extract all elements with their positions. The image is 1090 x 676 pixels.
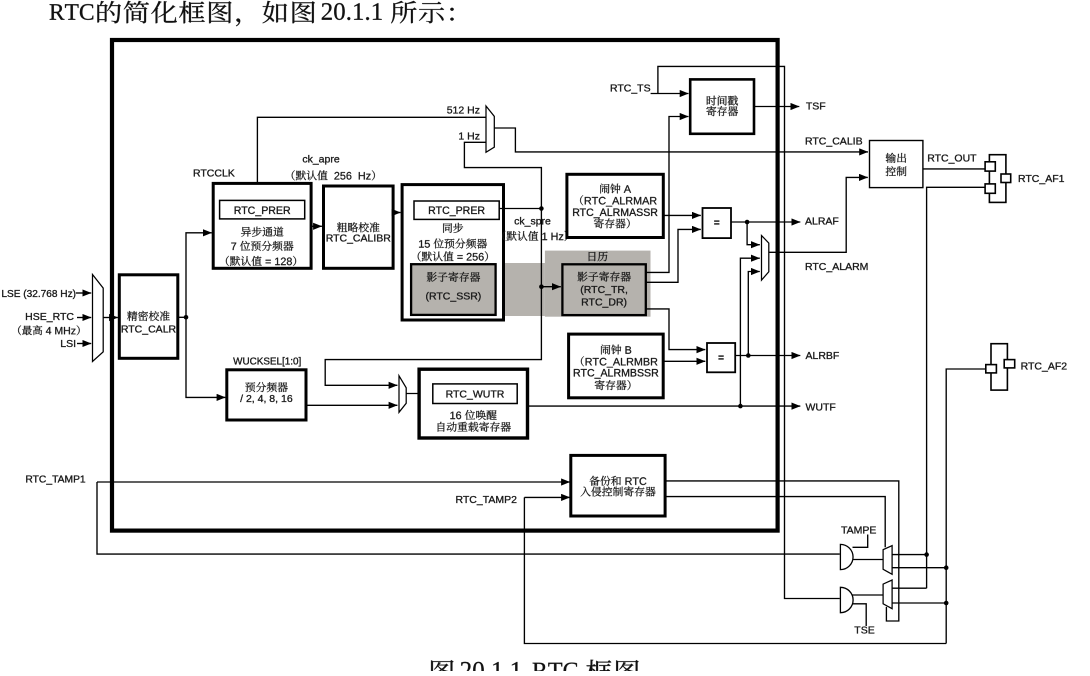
text 自动重载寄存器 xyxy=(438,422,511,432)
text 闹钟 B xyxy=(601,345,631,355)
wire calendar to timestamp xyxy=(646,117,689,273)
wire RTCCLK up to async prescaler xyxy=(186,233,212,317)
text （RTC_ALRMAR xyxy=(580,195,657,206)
svg-text:(RTC_TR,: (RTC_TR, xyxy=(580,284,628,296)
svg-text:RTC_ALRMASSR: RTC_ALRMASSR xyxy=(572,207,658,219)
wire RTC_TAMP1 to TAMPE gate xyxy=(97,482,840,554)
box shadow register RTC_TR/RTC_DR xyxy=(562,264,645,315)
svg-text:RTCCLK: RTCCLK xyxy=(193,167,235,179)
text 控制 xyxy=(886,166,907,176)
svg-text:/ 2, 4, 8, 16: / 2, 4, 8, 16 xyxy=(240,393,293,405)
wire wakeup mux to WUTR xyxy=(406,393,431,395)
box 备份和RTC入侵控制寄存器 xyxy=(571,455,665,516)
wire TAMPE gate out xyxy=(853,559,883,561)
pin RTC_AF2 pad left xyxy=(986,365,997,373)
label （默认值 256 Hz） xyxy=(292,170,375,180)
wire RTCCLK down to /2..16 prescaler xyxy=(186,317,225,397)
svg-text:LSI: LSI xyxy=(60,338,76,350)
wire alarm B to comparator xyxy=(663,360,705,362)
box shadow register RTC_SSR xyxy=(411,264,496,315)
wire mux2 out C xyxy=(892,587,927,589)
calendar gray box 日历 xyxy=(545,251,651,317)
svg-text:RTC_OUT: RTC_OUT xyxy=(927,153,977,165)
text 16 位唤醒 xyxy=(450,410,496,420)
box 时间戳寄存器 timestamp xyxy=(690,79,754,133)
wire ck_spre to wakeup mux xyxy=(325,287,541,386)
wire calendar to comparator B xyxy=(646,309,706,350)
pin RTC_AF2 body xyxy=(991,344,1007,390)
wire comparator B to alarm mux xyxy=(748,272,760,356)
text 预分频器 xyxy=(245,382,287,392)
text 影子寄存器 (SSR) xyxy=(427,272,480,282)
svg-text:WUTF: WUTF xyxy=(806,402,836,414)
RTC block outer boundary xyxy=(112,40,778,531)
text 影子寄存器 (TR/DR) xyxy=(578,272,631,282)
wire calendar to comparator A xyxy=(646,229,701,282)
svg-text:HSE_RTC: HSE_RTC xyxy=(25,311,74,323)
wire TAMPE select xyxy=(853,535,868,548)
wire TSE gate out xyxy=(852,594,883,596)
wire backup out1 to mux2 select xyxy=(665,481,899,621)
node RTCCLK junction xyxy=(184,315,189,320)
wire ck_spre down xyxy=(540,209,542,287)
wire comparator A to alarm mux xyxy=(747,222,760,245)
text 同步 xyxy=(443,223,463,233)
svg-text:RTC_PRER: RTC_PRER xyxy=(234,205,291,217)
caption 图 20.1.1 RTC 框图 xyxy=(431,660,454,676)
svg-text:RTC_TS: RTC_TS xyxy=(610,83,651,95)
box 闹钟 B registers xyxy=(569,334,664,398)
wire RTC_OUT to AF1 xyxy=(923,168,986,170)
pin RTC_AF1 pad upper-left xyxy=(985,162,995,171)
alarm output mux xyxy=(762,236,769,281)
inner box RTC_PRER (async) xyxy=(220,200,305,219)
node ck_spre to calendar xyxy=(539,284,544,289)
svg-text:LSE (32.768 Hz): LSE (32.768 Hz) xyxy=(1,289,76,300)
pin RTC_AF2 pad right xyxy=(1004,360,1015,368)
svg-text:ck_apre: ck_apre xyxy=(302,154,340,166)
node dot B xyxy=(944,565,949,570)
wire async to coarse calib xyxy=(311,225,322,227)
clock input mux xyxy=(93,275,104,362)
pin RTC_AF1 pad lower-left xyxy=(985,184,995,193)
svg-text:RTC_PRER: RTC_PRER xyxy=(428,205,485,217)
wire WUTF out xyxy=(528,405,801,407)
svg-text:512 Hz: 512 Hz xyxy=(447,104,480,116)
svg-text:WUCKSEL[1:0]: WUCKSEL[1:0] xyxy=(233,356,301,367)
svg-text:RTC_ALARM: RTC_ALARM xyxy=(805,261,868,273)
box async 7-bit prescaler xyxy=(213,183,311,268)
node dot A xyxy=(924,552,929,557)
wire coarse to sync prescaler xyxy=(393,212,400,214)
svg-text:1 Hz: 1 Hz xyxy=(458,130,480,142)
svg-text:ALRBF: ALRBF xyxy=(806,350,840,362)
wire WUTF to alarm mux xyxy=(740,258,759,406)
text 7 位预分频器 xyxy=(231,241,293,251)
wakeup mux xyxy=(399,376,406,413)
svg-text:RTC_CALIBR: RTC_CALIBR xyxy=(326,233,392,245)
svg-text:=: = xyxy=(718,353,724,364)
text 闹钟 A xyxy=(600,184,631,194)
gray band linking shadow registers xyxy=(407,263,545,316)
svg-text:(RTC_SSR): (RTC_SSR) xyxy=(425,291,481,303)
wire mux1 out A xyxy=(892,554,927,556)
wire HSE_RTC to mux xyxy=(77,317,91,319)
svg-text:RTC_CALIB: RTC_CALIB xyxy=(805,135,863,147)
wire TSE select xyxy=(852,604,867,626)
node WUTF junction xyxy=(738,404,743,409)
text 寄存器） (A) xyxy=(594,218,630,228)
svg-text:TAMPE: TAMPE xyxy=(841,524,876,536)
comparator = (A) xyxy=(703,208,732,238)
wire AF1 down to tamper muxes xyxy=(927,187,986,588)
box 输出控制 output control xyxy=(870,141,923,188)
text 寄存器） (B) xyxy=(595,380,631,390)
label （最高 4 MHz） xyxy=(18,325,80,335)
wire RTC_TAMP1 to backup box xyxy=(97,481,570,483)
wire ALRBF out xyxy=(735,355,800,357)
gate TSE xyxy=(840,587,853,612)
text （RTC_ALRMBR xyxy=(581,356,658,367)
svg-text:RTC_WUTR: RTC_WUTR xyxy=(446,389,505,401)
wire mux output into RTC_CALR xyxy=(103,317,118,319)
text 入侵控制寄存器 xyxy=(581,486,656,496)
text 备份和 RTC xyxy=(590,476,647,486)
text 寄存器 (ts) xyxy=(706,106,738,116)
wire RTC_TAMP2 bottom run xyxy=(524,497,946,643)
inner box RTC_WUTR xyxy=(433,384,517,404)
text （默认值 = 128） xyxy=(226,256,296,266)
comparator = (B) xyxy=(707,343,735,372)
wire LSI to mux xyxy=(77,343,91,345)
wire backup out2 to mux1 select xyxy=(665,497,885,548)
wire ck_spre into calendar xyxy=(541,286,560,288)
svg-text:TSF: TSF xyxy=(806,101,826,113)
inner box RTC_PRER (sync) xyxy=(414,201,499,219)
wire RTC_ALARM to output-control xyxy=(769,177,868,252)
text （默认值 = 256） xyxy=(418,251,488,261)
wire RTC_TAMP2 to backup box xyxy=(524,496,570,498)
node ck line junction xyxy=(539,206,544,211)
svg-text:RTC_ALRMBSSR: RTC_ALRMBSSR xyxy=(573,368,659,380)
wire RTC_TS loop to TSE gate xyxy=(658,66,840,598)
wire alarm A to comparator xyxy=(663,214,701,216)
svg-text:=: = xyxy=(714,218,720,229)
wire LSE to mux xyxy=(76,292,91,294)
node ALRBF junction xyxy=(746,353,751,358)
node dot D xyxy=(944,601,949,606)
wire 512Hz tap from async box xyxy=(257,117,486,183)
node ALRAF junction xyxy=(745,220,750,225)
text 粗略校准 xyxy=(337,222,380,232)
wire RTC_CALR output to junction xyxy=(178,316,186,318)
gate TAMPE xyxy=(840,544,853,569)
svg-text:RTC_AF1: RTC_AF1 xyxy=(1018,173,1065,185)
calendar label 日历 xyxy=(589,252,608,262)
wire prescaler to wakeup mux xyxy=(306,404,397,406)
tamper mux lower xyxy=(883,580,892,609)
wire RTC_TS into timestamp xyxy=(651,93,689,95)
pin RTC_AF1 pad right xyxy=(1001,174,1011,183)
text 精密校准 xyxy=(127,311,170,321)
tamper mux upper xyxy=(883,546,892,575)
label （默认值 1 Hz） xyxy=(502,231,567,241)
title text: RTC block-diagram heading xyxy=(50,4,94,20)
svg-text:RTC_AF2: RTC_AF2 xyxy=(1021,360,1068,372)
wire ALRAF out xyxy=(731,221,800,223)
box sync 15-bit prescaler xyxy=(402,185,503,320)
box 粗略校准 RTC_CALIBR xyxy=(324,186,394,268)
text 异步通道 xyxy=(241,227,283,237)
box 16-bit wakeup auto-reload xyxy=(419,369,527,438)
text 时间戳 xyxy=(707,96,738,106)
mux 512Hz/1Hz xyxy=(486,106,494,152)
wire 1Hz loop to mux xyxy=(464,142,541,208)
svg-text:ck_spre: ck_spre xyxy=(514,216,551,228)
svg-text:RTC_TAMP2: RTC_TAMP2 xyxy=(456,494,518,506)
svg-text:RTC_DR): RTC_DR) xyxy=(581,297,627,309)
box 精密校准 RTC_CALR xyxy=(119,275,178,359)
svg-text:RTC_CALR: RTC_CALR xyxy=(121,324,177,336)
pin RTC_AF1 body xyxy=(989,155,1006,203)
svg-text:TSE: TSE xyxy=(854,624,874,636)
wire TSF out xyxy=(754,106,799,108)
wire mux2 out D xyxy=(892,602,946,604)
text 输出 xyxy=(886,153,906,163)
box 闹钟 A registers xyxy=(567,174,663,237)
svg-text:RTC_TAMP1: RTC_TAMP1 xyxy=(25,475,86,486)
box 预分频器 /2,4,8,16 xyxy=(227,370,306,420)
svg-text:ALRAF: ALRAF xyxy=(805,216,839,228)
wire sync PRER out to node xyxy=(499,208,541,210)
wire calib mux out to output-control xyxy=(494,128,868,152)
wire tamper net up to AF2 xyxy=(946,369,985,644)
text 15 位预分频器 xyxy=(419,239,487,249)
wire mux1 out B xyxy=(892,567,946,569)
